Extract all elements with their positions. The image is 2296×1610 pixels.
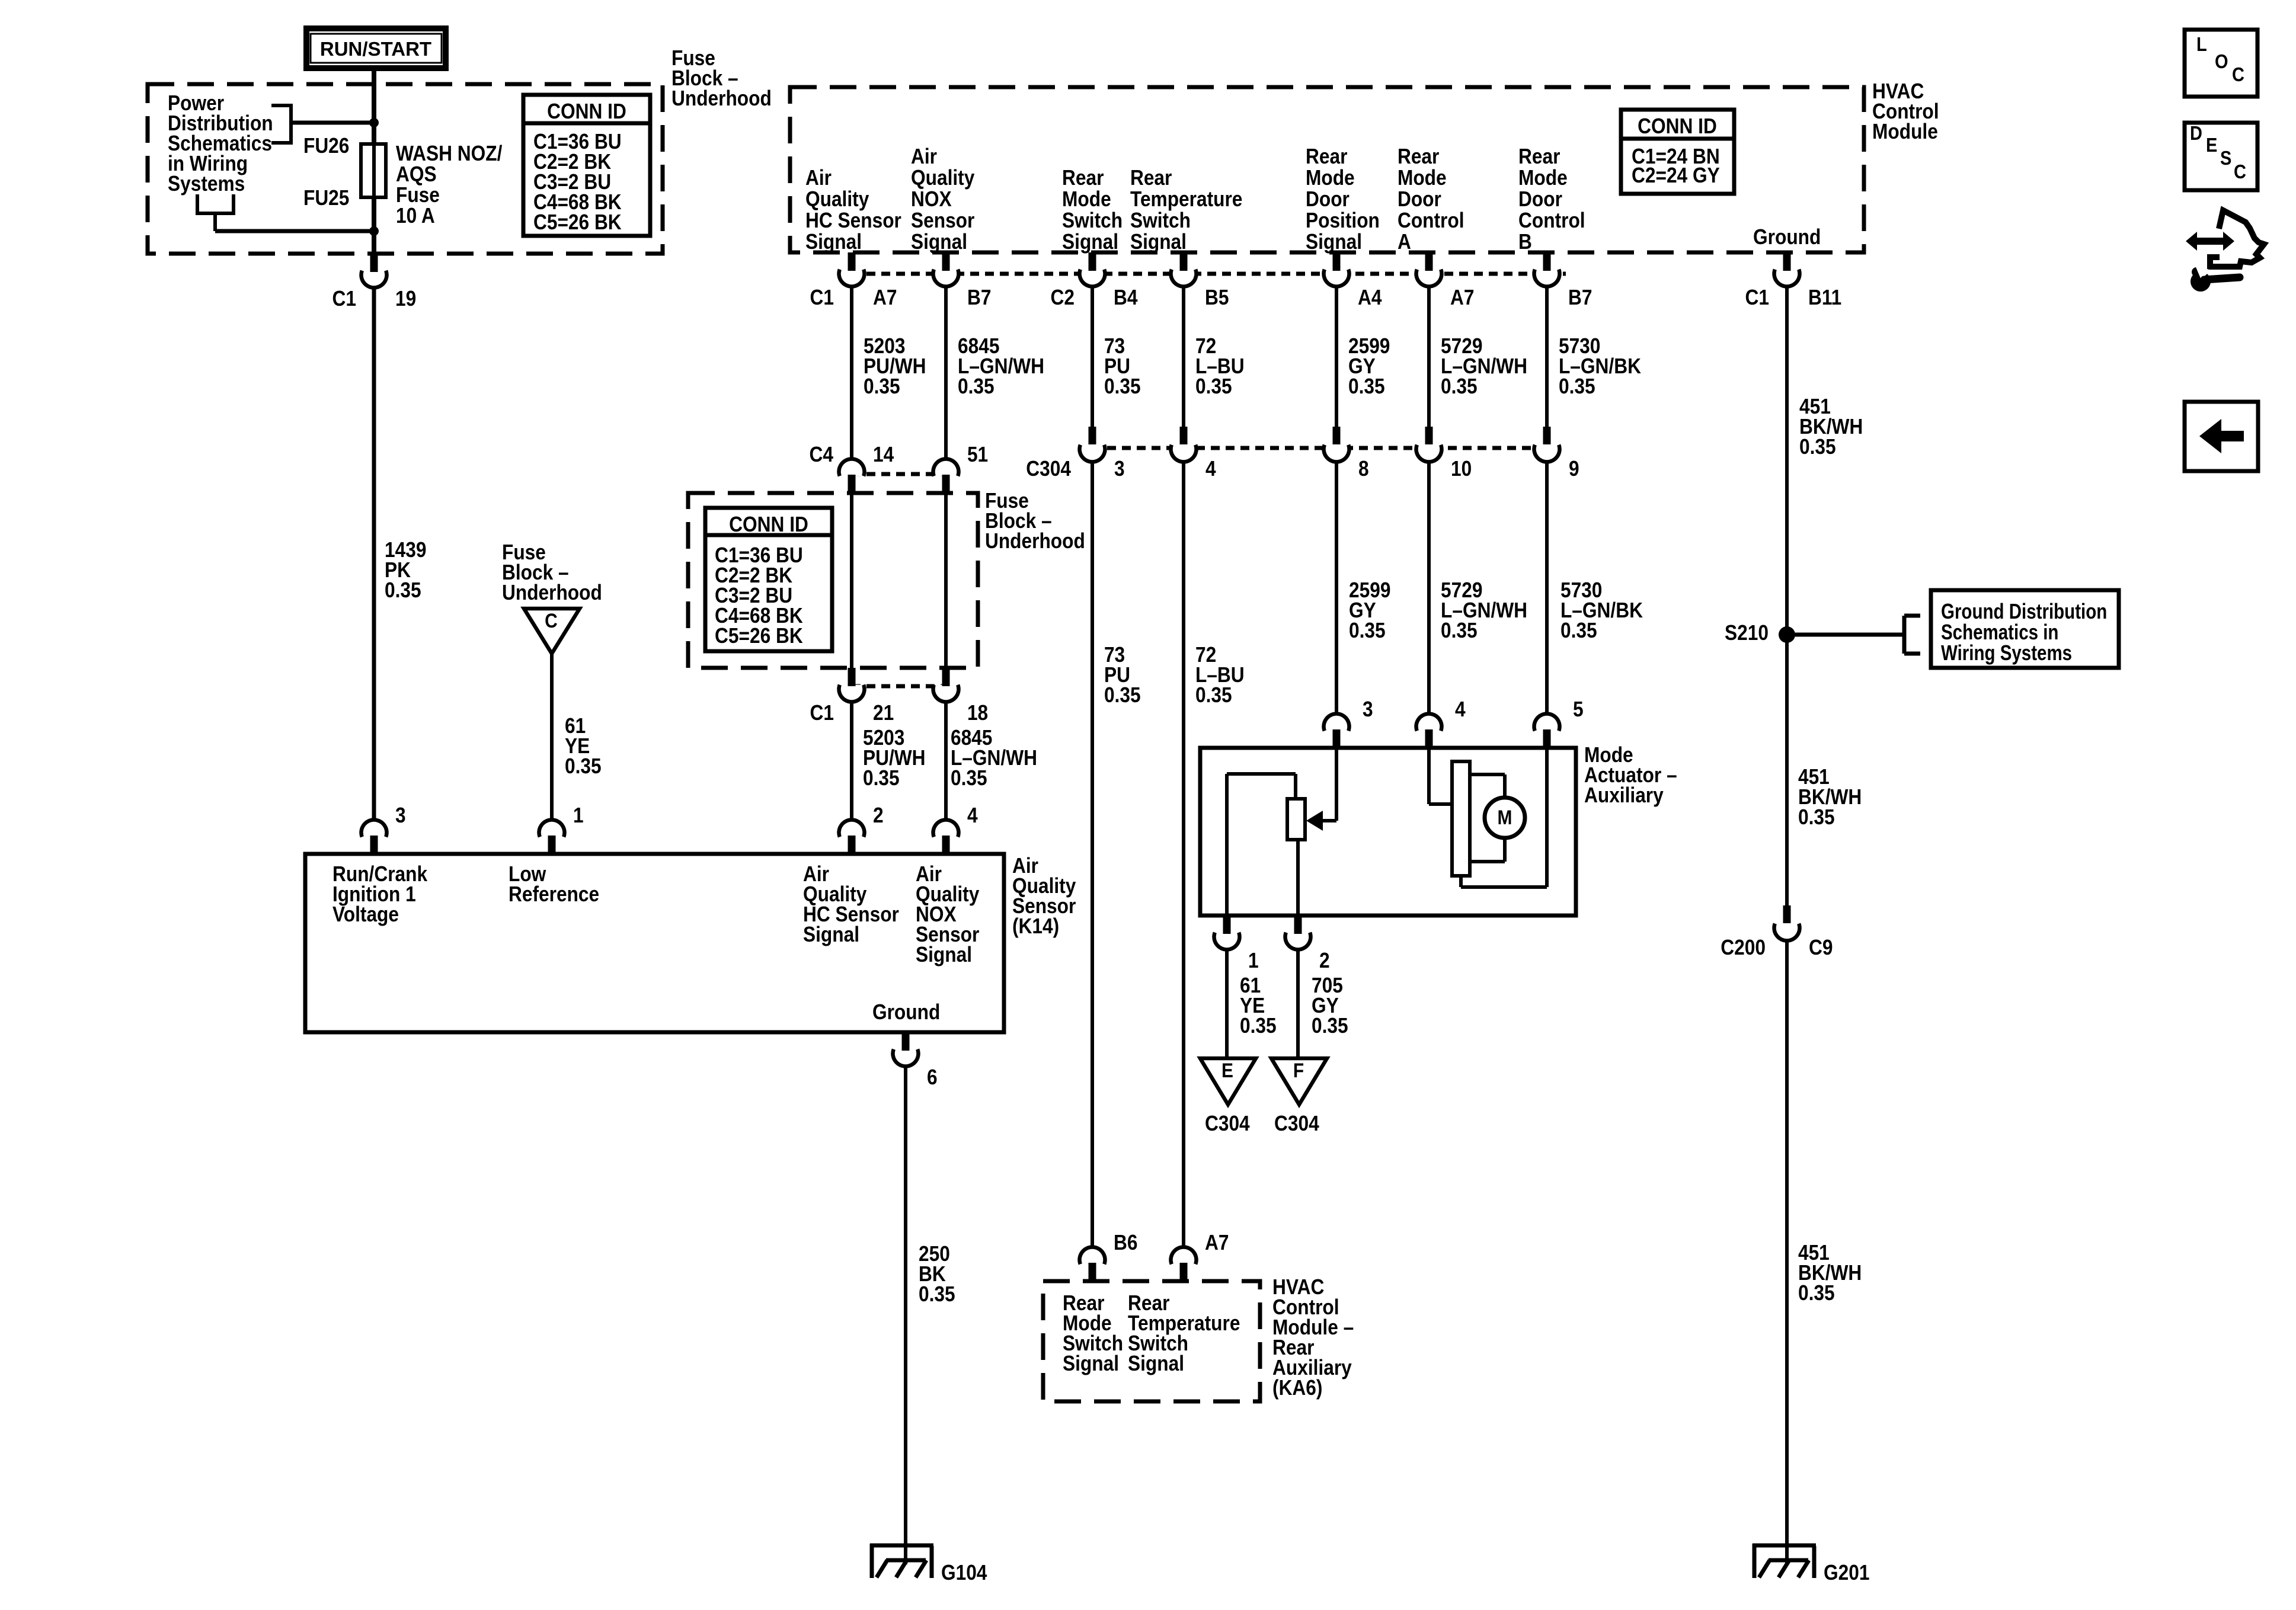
ignition voltage source box RUN/START — [306, 28, 446, 68]
svg-text:Position: Position — [1306, 209, 1380, 232]
label C304 under F — [1274, 1112, 1319, 1135]
svg-text:Underhood: Underhood — [985, 529, 1085, 553]
svg-text:0.35: 0.35 — [1798, 805, 1835, 829]
label 2599 GY seg2 — [1349, 578, 1390, 642]
label 73 PU seg2 — [1104, 643, 1141, 707]
svg-text:10: 10 — [1451, 457, 1472, 481]
svg-text:O: O — [2215, 50, 2228, 72]
label rear mode switch signal KA6 — [1063, 1291, 1123, 1375]
ground G201 — [1753, 1544, 1816, 1578]
svg-text:Mode: Mode — [1306, 166, 1355, 190]
bracket systems return — [196, 194, 235, 231]
svg-text:Auxiliary: Auxiliary — [1584, 783, 1664, 807]
wire 451 seg2 — [1785, 635, 1789, 905]
wire 6845 seg1 — [944, 287, 948, 459]
svg-text:A: A — [1398, 230, 1411, 254]
svg-text:B7: B7 — [1568, 286, 1592, 309]
wire commutator to motor bottom — [1470, 838, 1505, 862]
svg-text:3: 3 — [1114, 457, 1125, 481]
potentiometer element — [1287, 799, 1305, 840]
note power distribution schematics — [168, 91, 273, 196]
label circuit 1439 PK 0.35 — [385, 538, 426, 602]
svg-text:Voltage: Voltage — [332, 902, 399, 926]
label S210 — [1725, 621, 1769, 645]
svg-text:0.35: 0.35 — [1240, 1014, 1277, 1038]
label rear mode door control A — [1398, 145, 1464, 254]
svg-text:21: 21 — [873, 701, 894, 725]
svg-text:Signal: Signal — [911, 230, 967, 254]
svg-text:Door: Door — [1306, 187, 1350, 211]
svg-text:C1: C1 — [810, 701, 834, 725]
svg-text:C2=24 GY: C2=24 GY — [1632, 164, 1720, 187]
label FU25 — [303, 186, 349, 210]
svg-text:(KA6): (KA6) — [1272, 1376, 1322, 1400]
label AQS HC sensor signal — [803, 862, 899, 946]
label 451 BK/WH seg3 — [1798, 1241, 1862, 1305]
motor M — [1485, 798, 1525, 838]
wire 5730 seg2 — [1545, 462, 1549, 714]
label 72 L-BU seg2 — [1195, 643, 1245, 707]
svg-text:0.35: 0.35 — [1104, 375, 1141, 398]
connector HVAC pin A7 — [1416, 252, 1474, 309]
svg-text:3: 3 — [395, 804, 406, 827]
connector C200 pin C9 — [1721, 905, 1833, 959]
connector HVAC pin A4 — [1324, 252, 1382, 309]
svg-text:Signal: Signal — [916, 943, 972, 966]
connector AQS pin 6 — [893, 1032, 937, 1089]
connector HVAC pin A7 — [810, 252, 897, 309]
svg-text:E: E — [1221, 1059, 1233, 1081]
label fuse block ref C — [502, 540, 602, 604]
label run/crank ignition 1 voltage — [332, 862, 427, 926]
wire commutator to motor top — [1470, 774, 1505, 798]
triangle connector F — [1271, 1058, 1327, 1105]
fuse block underhood 2 dashed box — [688, 493, 978, 668]
svg-text:51: 51 — [967, 443, 988, 466]
connector mode actuator pin 4 — [1416, 697, 1465, 748]
svg-text:Signal: Signal — [1306, 230, 1362, 254]
svg-text:Ground: Ground — [872, 1000, 940, 1024]
wire RUN/START to fuse block — [372, 68, 376, 254]
junction dot FU26 tap — [369, 118, 379, 127]
svg-text:Quality: Quality — [805, 187, 869, 211]
label fuse value — [396, 142, 503, 228]
wire 250 BK ground — [904, 1067, 907, 1565]
svg-text:Sensor: Sensor — [911, 209, 974, 232]
svg-text:0.35: 0.35 — [1104, 683, 1141, 707]
connector HVAC pin B5 — [1171, 252, 1229, 309]
svg-text:Underhood: Underhood — [502, 581, 602, 604]
svg-text:Control: Control — [1518, 209, 1585, 232]
connector row dotted line — [852, 272, 1566, 276]
label 5203 PU/WH — [864, 334, 926, 398]
wire 73 seg2 — [1091, 462, 1094, 1247]
svg-text:0.35: 0.35 — [951, 766, 987, 790]
svg-text:CONN ID: CONN ID — [547, 100, 626, 123]
svg-text:B5: B5 — [1205, 286, 1229, 309]
connector row dotted line C1-21-18 — [852, 684, 946, 689]
connector KA6 pin B6 — [1080, 1231, 1138, 1281]
svg-text:A7: A7 — [1450, 286, 1474, 309]
svg-text:A7: A7 — [873, 286, 897, 309]
wire systems bracket to bus — [215, 229, 374, 233]
svg-text:Control: Control — [1398, 209, 1464, 232]
wire 705 GY pin2 — [1296, 950, 1300, 1059]
svg-text:4: 4 — [1455, 697, 1466, 721]
svg-text:Ground: Ground — [1753, 225, 1821, 249]
motor commutator bar — [1452, 761, 1470, 876]
triangle connector E — [1200, 1058, 1256, 1105]
wire 5729 seg1 — [1427, 287, 1431, 427]
label air quality NOX sensor signal — [911, 145, 974, 254]
svg-text:0.35: 0.35 — [1798, 1281, 1835, 1305]
connector fuse block pin 51 — [933, 443, 989, 493]
connector mode actuator pin 1 — [1214, 916, 1259, 972]
svg-text:Wiring Systems: Wiring Systems — [1941, 641, 2072, 664]
svg-text:(K14): (K14) — [1012, 914, 1059, 938]
svg-text:6: 6 — [927, 1065, 938, 1089]
label fuse block underhood 2 — [985, 489, 1085, 553]
connector C304 pin 10 — [1416, 427, 1472, 481]
label G201 — [1824, 1561, 1869, 1585]
svg-text:Signal: Signal — [1130, 230, 1187, 254]
svg-text:2: 2 — [873, 804, 884, 827]
wire potentiometer top — [1227, 774, 1296, 916]
svg-text:C304: C304 — [1205, 1112, 1250, 1135]
connector mode actuator pin 3 — [1324, 697, 1373, 748]
svg-text:C200: C200 — [1721, 936, 1766, 959]
svg-text:Signal: Signal — [1128, 1352, 1184, 1375]
svg-text:Rear: Rear — [1398, 145, 1439, 168]
svg-text:Mode: Mode — [1062, 187, 1111, 211]
wire 2599 seg1 — [1335, 287, 1338, 427]
connector fuse block C4 pin 14 — [809, 443, 894, 493]
connector C304 pin 3 — [1026, 427, 1124, 481]
svg-text:E: E — [2206, 134, 2217, 156]
svg-text:Air: Air — [805, 166, 832, 190]
svg-text:0.35: 0.35 — [863, 766, 900, 790]
svg-text:Underhood: Underhood — [671, 87, 772, 110]
svg-text:Mode: Mode — [1518, 166, 1568, 190]
connector C1 pin 19 — [332, 254, 417, 311]
ground distribution schematics box — [1931, 590, 2119, 668]
label 61 YE 0.35 — [1240, 974, 1277, 1038]
svg-text:C9: C9 — [1809, 936, 1833, 959]
svg-text:D: D — [2190, 122, 2202, 144]
connector KA6 pin A7 — [1171, 1231, 1229, 1281]
svg-text:0.35: 0.35 — [1559, 375, 1595, 398]
svg-text:B6: B6 — [1114, 1231, 1137, 1254]
svg-text:S: S — [2220, 147, 2231, 169]
wire potentiometer bottom — [1296, 840, 1300, 916]
label 5730 L-GN/BK — [1559, 334, 1641, 398]
label 5729 L-GN/WH — [1441, 334, 1527, 398]
label rear mode door position signal — [1306, 145, 1380, 254]
icon back arrow — [2185, 402, 2258, 471]
svg-text:10 A: 10 A — [396, 204, 435, 228]
connector mode actuator pin 5 — [1534, 697, 1584, 748]
svg-text:G104: G104 — [941, 1561, 987, 1585]
wire motor feed pin 4 — [1429, 748, 1452, 804]
label air quality sensor K14 — [1012, 854, 1076, 938]
svg-text:FU25: FU25 — [303, 186, 349, 210]
wire S210 to ground distribution — [1787, 633, 1904, 637]
wire 6845 seg2 — [944, 702, 948, 820]
svg-text:Quality: Quality — [911, 166, 974, 190]
svg-text:Switch: Switch — [1062, 209, 1123, 232]
svg-text:C5=26 BK: C5=26 BK — [533, 210, 622, 234]
svg-text:C4: C4 — [809, 443, 833, 466]
svg-text:A4: A4 — [1358, 286, 1382, 309]
icon locate wrench — [2186, 210, 2264, 292]
svg-text:Signal: Signal — [805, 230, 862, 254]
label C304 under E — [1205, 1112, 1250, 1135]
CONN ID table fuse block 2 — [705, 508, 832, 651]
svg-text:B: B — [1518, 230, 1532, 254]
label rear mode door control B — [1518, 145, 1585, 254]
svg-text:Signal: Signal — [1063, 1352, 1119, 1375]
svg-text:Rear: Rear — [1518, 145, 1560, 168]
label 451 BK/WH seg2 — [1798, 765, 1862, 829]
svg-text:0.35: 0.35 — [1441, 375, 1478, 398]
svg-text:Air: Air — [911, 145, 937, 168]
label 5203 PU/WH seg2 — [863, 726, 926, 790]
wire 61 YE low reference — [550, 654, 554, 820]
label air quality HC sensor signal — [805, 166, 901, 254]
connector AQS pin 4 — [933, 804, 978, 854]
label low reference — [509, 862, 599, 906]
svg-text:HC Sensor: HC Sensor — [805, 209, 901, 232]
connector HVAC pin B7 — [1534, 252, 1593, 309]
svg-text:Signal: Signal — [1062, 230, 1118, 254]
label circuit 250 BK 0.35 — [919, 1242, 955, 1306]
svg-text:NOX: NOX — [911, 187, 952, 211]
svg-text:C304: C304 — [1274, 1112, 1319, 1135]
svg-text:C5=26 BK: C5=26 BK — [715, 624, 803, 648]
svg-text:C1: C1 — [332, 287, 356, 311]
svg-text:0.35: 0.35 — [1560, 619, 1597, 642]
wire 451 seg3 — [1785, 941, 1789, 1565]
label FU26 — [303, 134, 349, 158]
bracket power distribution — [271, 105, 293, 143]
wire motor return pin 5 — [1461, 748, 1547, 887]
svg-text:Mode: Mode — [1398, 166, 1447, 190]
svg-text:0.35: 0.35 — [1349, 619, 1386, 642]
wire 5729 seg2 — [1427, 462, 1431, 714]
svg-text:1: 1 — [1248, 949, 1259, 972]
svg-text:8: 8 — [1358, 457, 1369, 481]
svg-text:0.35: 0.35 — [1195, 375, 1232, 398]
connector row dotted line C4 — [852, 472, 946, 476]
svg-text:C304: C304 — [1026, 457, 1071, 481]
wire 451 seg1 — [1785, 287, 1789, 635]
svg-text:Door: Door — [1398, 187, 1441, 211]
label rear temperature switch signal KA6 — [1128, 1291, 1240, 1375]
connector AQS pin 1 — [539, 804, 583, 854]
svg-text:Rear: Rear — [1062, 166, 1104, 190]
label AQS NOX sensor signal — [916, 862, 979, 966]
connector row dotted line C304 — [1092, 446, 1547, 450]
svg-text:M: M — [1498, 806, 1512, 828]
svg-text:0.35: 0.35 — [919, 1282, 955, 1306]
wire 72 seg2 — [1182, 462, 1185, 1247]
svg-text:Module: Module — [1872, 120, 1938, 143]
svg-text:4: 4 — [967, 804, 978, 827]
svg-text:14: 14 — [873, 443, 894, 466]
label rear mode switch signal — [1062, 166, 1123, 254]
svg-text:C: C — [2234, 161, 2246, 183]
svg-text:0.35: 0.35 — [1195, 683, 1232, 707]
svg-text:C: C — [545, 609, 558, 632]
wire 61 YE pin1 — [1225, 950, 1229, 1059]
HVAC control module dashed box — [790, 87, 1864, 252]
label 5730 L-GN/BK seg2 — [1560, 578, 1643, 642]
svg-text:Reference: Reference — [509, 882, 599, 906]
svg-text:Rear: Rear — [1130, 166, 1172, 190]
svg-text:G201: G201 — [1824, 1561, 1869, 1585]
wire inside fuse block seg W3 — [850, 493, 853, 668]
svg-text:0.35: 0.35 — [864, 375, 900, 398]
svg-text:C1: C1 — [810, 286, 834, 309]
svg-text:0.35: 0.35 — [958, 375, 994, 398]
svg-text:C1: C1 — [1745, 286, 1769, 309]
label 451 BK/WH seg1 — [1799, 395, 1863, 459]
mode actuator auxiliary box — [1200, 748, 1576, 916]
svg-text:0.35: 0.35 — [1799, 435, 1836, 459]
svg-text:18: 18 — [967, 701, 988, 725]
wire 73 seg1 — [1091, 287, 1094, 427]
connector fuse block C1 pin 21 — [810, 668, 894, 725]
label 6845 L-GN/WH seg2 — [951, 726, 1037, 790]
label rear temperature switch signal — [1130, 166, 1242, 254]
wire bracket to bus — [291, 121, 374, 125]
connector HVAC pin B11 — [1745, 252, 1841, 309]
svg-text:CONN ID: CONN ID — [729, 513, 808, 536]
connector HVAC pin B4 — [1050, 252, 1137, 309]
wiper arrow wire pin 3 — [1306, 748, 1336, 831]
icon LOC — [2185, 30, 2257, 97]
svg-text:5: 5 — [1573, 697, 1584, 721]
connector HVAC pin B7 — [933, 252, 992, 309]
air quality sensor K14 box — [305, 854, 1004, 1032]
svg-text:F: F — [1293, 1059, 1304, 1081]
connector C304 pin 9 — [1534, 427, 1579, 481]
connector C304 pin 8 — [1324, 427, 1369, 481]
icon DESC — [2185, 122, 2257, 190]
label 6845 L-GN/WH — [958, 334, 1044, 398]
bracket ground distribution — [1904, 616, 1920, 654]
svg-text:C2: C2 — [1050, 286, 1074, 309]
svg-text:B4: B4 — [1114, 286, 1138, 309]
wire 5203 seg2 — [850, 702, 853, 820]
junction dot FU25 tap — [369, 226, 379, 236]
svg-text:Switch: Switch — [1130, 209, 1191, 232]
connector fuse block pin 18 — [933, 668, 989, 725]
label mode actuator auxiliary — [1584, 743, 1677, 807]
wire 5730 seg1 — [1545, 287, 1549, 427]
CONN ID table fuse block underhood — [523, 95, 650, 236]
fuse block underhood dashed box — [148, 84, 663, 254]
fuse WASH NOZ/AQS FU25 — [361, 144, 386, 197]
label G104 — [941, 1561, 987, 1585]
triangle connector C — [524, 609, 580, 654]
wire inside fuse block seg W4 — [944, 493, 948, 668]
CONN ID table HVAC control module — [1621, 110, 1734, 194]
label circuit 61 YE 0.35 — [565, 714, 602, 778]
svg-text:0.35: 0.35 — [1312, 1014, 1348, 1038]
svg-text:S210: S210 — [1725, 621, 1769, 645]
connector mode actuator pin 2 — [1285, 916, 1330, 972]
HVAC rear auxiliary dashed box — [1043, 1281, 1260, 1401]
svg-text:19: 19 — [395, 287, 416, 311]
label HVAC control module rear auxiliary — [1272, 1275, 1354, 1400]
svg-text:C: C — [2232, 63, 2244, 85]
connector AQS pin 3 — [362, 804, 406, 854]
connector C304 pin 4 — [1171, 427, 1216, 481]
label 73 PU — [1104, 334, 1141, 398]
svg-text:1: 1 — [573, 804, 584, 827]
label fuse block underhood — [671, 46, 772, 110]
svg-text:B7: B7 — [967, 286, 991, 309]
svg-text:Systems: Systems — [168, 172, 245, 196]
wire 5203 seg1 — [850, 287, 853, 459]
svg-text:Signal: Signal — [803, 923, 859, 946]
svg-text:2: 2 — [1319, 949, 1330, 972]
wire 1439 PK — [372, 288, 376, 820]
svg-text:RUN/START: RUN/START — [320, 38, 431, 60]
label HVAC control module — [1872, 79, 1939, 143]
wire 72 seg1 — [1182, 287, 1185, 427]
svg-text:Rear: Rear — [1306, 145, 1347, 168]
ground G104 — [870, 1544, 933, 1578]
label 5729 L-GN/WH seg2 — [1441, 578, 1527, 642]
splice S210 — [1779, 626, 1795, 643]
svg-text:0.35: 0.35 — [565, 754, 602, 778]
svg-text:Temperature: Temperature — [1130, 187, 1242, 211]
svg-text:B11: B11 — [1808, 286, 1841, 309]
svg-text:0.35: 0.35 — [1441, 619, 1478, 642]
svg-text:3: 3 — [1363, 697, 1373, 721]
svg-text:0.35: 0.35 — [1348, 375, 1385, 398]
label AQS ground — [872, 1000, 940, 1024]
label 705 GY 0.35 — [1312, 974, 1348, 1038]
label HVAC ground — [1753, 225, 1821, 249]
svg-text:A7: A7 — [1205, 1231, 1229, 1254]
svg-text:Door: Door — [1518, 187, 1562, 211]
svg-text:0.35: 0.35 — [385, 578, 421, 602]
connector AQS pin 2 — [839, 804, 883, 854]
svg-text:CONN ID: CONN ID — [1638, 114, 1717, 138]
wire 2599 seg2 — [1335, 462, 1338, 714]
label 2599 GY — [1348, 334, 1390, 398]
svg-text:FU26: FU26 — [303, 134, 349, 158]
svg-text:L: L — [2196, 33, 2207, 55]
label 72 L-BU — [1195, 334, 1245, 398]
svg-text:9: 9 — [1569, 457, 1579, 481]
svg-text:4: 4 — [1205, 457, 1216, 481]
